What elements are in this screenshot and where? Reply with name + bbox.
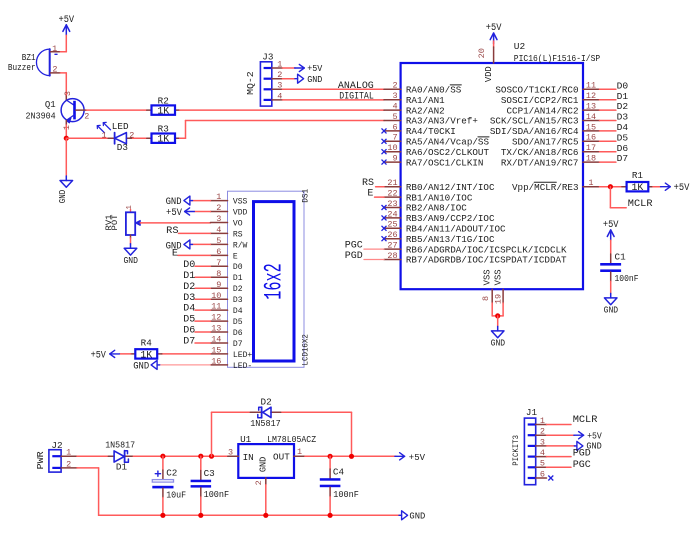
node D3 label (LCD) bbox=[183, 293, 195, 304]
node junction C4/rail bbox=[328, 513, 333, 518]
wire RV1 to GND bbox=[130, 238, 132, 244]
svg-text:D1: D1 bbox=[183, 271, 195, 282]
pin 2 (buzzer) bbox=[52, 65, 57, 75]
wire net ANALOG J3 pin3 to MCU RA0 bbox=[283, 88, 385, 90]
svg-text:D1: D1 bbox=[617, 91, 629, 102]
svg-text:8: 8 bbox=[216, 269, 221, 279]
node D2 label (MCU) bbox=[617, 101, 629, 112]
svg-text:4: 4 bbox=[216, 225, 221, 235]
svg-text:D4: D4 bbox=[233, 306, 243, 316]
wire net D0 to DS1 bbox=[195, 265, 210, 267]
wire J3 pin2 to GND bbox=[283, 78, 295, 80]
pin 4 (DS1 RS) bbox=[210, 225, 242, 239]
svg-text:2: 2 bbox=[216, 203, 221, 213]
pin 11 (DS1 D4) bbox=[210, 302, 242, 316]
svg-text:100nF: 100nF bbox=[204, 489, 230, 500]
pin 17 (U2 TX/CK/AN18/RC6) bbox=[501, 143, 600, 158]
pin 3 (J1) bbox=[540, 437, 545, 447]
svg-text:J3: J3 bbox=[262, 52, 273, 63]
svg-text:+5V: +5V bbox=[603, 219, 619, 230]
diode D1 1N5817 (schottky) bbox=[105, 439, 135, 472]
pin 28 (U2 RB7/ADGRDB/IOC/ICSPDAT/ICDDAT) bbox=[384, 251, 567, 266]
pin 16 (DS1 LED-) bbox=[210, 357, 252, 371]
pin 4 (J1) bbox=[540, 448, 545, 458]
svg-text:D4: D4 bbox=[617, 122, 629, 133]
svg-text:VSS: VSS bbox=[233, 197, 248, 207]
node D0 label (LCD) bbox=[183, 260, 195, 271]
svg-text:RB3/AN9/CCP2/IOC: RB3/AN9/CCP2/IOC bbox=[406, 213, 495, 224]
svg-text:D3: D3 bbox=[617, 112, 629, 123]
node D5 label (LCD) bbox=[183, 315, 195, 326]
wire Q1 emitter down bbox=[65, 125, 67, 138]
pin 6 (DS1 E) bbox=[210, 247, 237, 261]
svg-text:D6: D6 bbox=[233, 328, 243, 338]
svg-text:1K: 1K bbox=[157, 134, 169, 145]
pin 3 (U1 IN) bbox=[228, 447, 233, 457]
svg-text:RB6/ADGRDA/IOC/ICSPCLK/ICDCLK: RB6/ADGRDA/IOC/ICSPCLK/ICDCLK bbox=[406, 244, 567, 255]
svg-text:5: 5 bbox=[216, 236, 221, 246]
svg-text:GND: GND bbox=[491, 338, 506, 349]
svg-text:VSS: VSS bbox=[493, 269, 503, 285]
node junction C3/rail bbox=[198, 513, 203, 518]
svg-text:R/W: R/W bbox=[233, 240, 248, 250]
wire net PGD from J1 pin4 bbox=[547, 456, 572, 458]
svg-text:5: 5 bbox=[392, 112, 397, 122]
svg-text:RB7/ADGRDB/IOC/ICSPDAT/ICDDAT: RB7/ADGRDB/IOC/ICSPDAT/ICDDAT bbox=[406, 255, 567, 266]
svg-text:SDO/AN17/RC5: SDO/AN17/RC5 bbox=[512, 137, 579, 148]
wire J1 pin3 to GND bbox=[547, 445, 576, 447]
node junction D2 right bbox=[349, 454, 354, 459]
node RS label (LCD) bbox=[166, 225, 178, 237]
svg-text:LED: LED bbox=[112, 121, 129, 132]
svg-text:VDD: VDD bbox=[233, 207, 248, 217]
svg-text:+5V: +5V bbox=[307, 63, 322, 74]
power +5V (C1) bbox=[603, 219, 619, 241]
wire U1 GND to rail bbox=[265, 485, 267, 516]
pin 14 (U2 SCK/SCL/AN15/RC3) bbox=[490, 112, 600, 127]
svg-text:D0: D0 bbox=[183, 260, 195, 271]
svg-text:15: 15 bbox=[211, 346, 221, 356]
svg-text:D0: D0 bbox=[233, 262, 243, 272]
svg-text:OUT: OUT bbox=[273, 452, 290, 463]
svg-text:VDD: VDD bbox=[484, 66, 494, 82]
pin 1 (Q1 emitter) bbox=[62, 125, 72, 130]
pin 18 (U2 RX/DT/AN19/RC7) bbox=[501, 154, 600, 169]
node E label (LCD) bbox=[172, 248, 178, 260]
node junction MCLR/R1 bbox=[608, 184, 613, 189]
node junction C3 bbox=[198, 454, 203, 459]
node DIGITAL label bbox=[339, 91, 374, 102]
svg-text:2: 2 bbox=[392, 81, 397, 91]
node D0 label (MCU) bbox=[617, 80, 629, 91]
svg-text:15: 15 bbox=[586, 122, 596, 132]
wire junction to LED anode bbox=[66, 137, 108, 139]
node junction C4 bbox=[328, 454, 333, 459]
wire net D4 from U2 pin 15 bbox=[600, 130, 616, 132]
svg-text:D3: D3 bbox=[183, 293, 195, 304]
svg-text:CCP1/AN14/RC2: CCP1/AN14/RC2 bbox=[507, 105, 579, 116]
pin 1 (U2 Vpp/MCLR/RE3) bbox=[512, 178, 600, 193]
svg-text:3: 3 bbox=[392, 91, 397, 101]
wire net D1 from U2 pin 12 bbox=[600, 99, 616, 101]
svg-text:+5V: +5V bbox=[587, 431, 602, 442]
node E label (MCU) bbox=[367, 189, 373, 200]
node junction VSS bbox=[495, 313, 500, 318]
svg-text:LM78L05ACZ: LM78L05ACZ bbox=[267, 434, 316, 445]
pin 1 (U1 OUT) bbox=[297, 447, 302, 457]
svg-text:8: 8 bbox=[481, 296, 491, 301]
wire net MCLR from J1 pin1 bbox=[547, 424, 572, 426]
node junction D2 left bbox=[209, 454, 214, 459]
no-connect (J1 pin6) bbox=[548, 476, 553, 481]
svg-text:D2: D2 bbox=[617, 101, 629, 112]
svg-text:2: 2 bbox=[254, 480, 264, 485]
svg-text:10: 10 bbox=[211, 291, 221, 301]
svg-text:LCD16X2: LCD16X2 bbox=[301, 334, 311, 365]
pin 12 (U2 SOSCI/CCP2/RC1) bbox=[501, 91, 600, 106]
svg-text:RA2/AN2: RA2/AN2 bbox=[406, 105, 445, 116]
svg-text:13: 13 bbox=[586, 102, 596, 112]
svg-text:1: 1 bbox=[126, 205, 134, 209]
pin 10 (DS1 D3) bbox=[210, 291, 242, 305]
svg-text:D7: D7 bbox=[617, 153, 629, 164]
node D1 label (MCU) bbox=[617, 91, 629, 102]
svg-text:3: 3 bbox=[277, 81, 282, 91]
svg-text:12: 12 bbox=[211, 313, 221, 323]
node MCLR label bbox=[628, 198, 653, 210]
svg-text:E: E bbox=[367, 189, 373, 200]
wire net PGD to U2 RB7 bbox=[364, 259, 384, 261]
svg-text:2: 2 bbox=[277, 70, 282, 80]
ground (rail label) bbox=[399, 511, 426, 522]
pin 24 (U2 RB3/AN9/CCP2/IOC) bbox=[382, 209, 495, 224]
svg-text:U2: U2 bbox=[514, 41, 526, 52]
svg-text:RA1/AN1: RA1/AN1 bbox=[406, 95, 445, 106]
svg-text:PIC16(L)F1516-I/SP: PIC16(L)F1516-I/SP bbox=[514, 53, 601, 64]
svg-text:16: 16 bbox=[211, 357, 221, 367]
svg-text:DIGITAL: DIGITAL bbox=[339, 91, 374, 102]
pin 2 (Q1 base) bbox=[84, 111, 89, 121]
power +5V (regulator output) bbox=[395, 452, 425, 463]
svg-text:C2: C2 bbox=[166, 467, 177, 478]
wire net RS to DS1 pin4 bbox=[179, 232, 211, 234]
svg-text:22: 22 bbox=[387, 189, 397, 199]
svg-text:C3: C3 bbox=[204, 468, 215, 479]
transistor Q1 2N3904 bbox=[26, 96, 87, 125]
connector J2 PWR bbox=[36, 440, 77, 472]
svg-text:7: 7 bbox=[392, 133, 397, 143]
capacitor C3 100nF bbox=[191, 456, 230, 515]
svg-text:1: 1 bbox=[101, 130, 106, 140]
svg-text:TX/CK/AN18/RC6: TX/CK/AN18/RC6 bbox=[501, 147, 579, 158]
node PGD label (MCU) bbox=[345, 251, 363, 262]
svg-text:D5: D5 bbox=[617, 132, 629, 143]
node ANALOG label bbox=[338, 81, 374, 92]
svg-text:28: 28 bbox=[387, 251, 397, 261]
node D4 label (MCU) bbox=[617, 122, 629, 133]
wire +5V to VDD bbox=[493, 41, 495, 47]
regulator U1 LM78L05ACZ bbox=[228, 434, 317, 485]
svg-text:GND: GND bbox=[57, 189, 68, 203]
ground (DS1 pin1) bbox=[166, 196, 193, 208]
svg-text:RA7/OSC1/CLKIN: RA7/OSC1/CLKIN bbox=[406, 157, 484, 168]
svg-text:RA4/T0CKI: RA4/T0CKI bbox=[406, 126, 456, 137]
svg-text:1: 1 bbox=[540, 416, 545, 426]
svg-text:GND: GND bbox=[133, 361, 149, 372]
node D2 label (LCD) bbox=[183, 282, 195, 293]
capacitor C2 10uF (polarized) bbox=[152, 456, 186, 515]
svg-text:D6: D6 bbox=[617, 143, 629, 154]
svg-text:7: 7 bbox=[216, 258, 221, 268]
wire DS1 VDD to +5V bbox=[195, 211, 211, 213]
svg-text:14: 14 bbox=[586, 112, 596, 122]
wire junction to GND bbox=[65, 138, 67, 176]
pin 2 (U1 GND) bbox=[254, 480, 264, 485]
wire net DIGITAL J3 pin4 to MCU RA1 bbox=[283, 99, 385, 101]
wire J3 pin1 to +5V bbox=[283, 67, 296, 69]
wire net RS to U2 RB0 bbox=[376, 186, 384, 188]
wire net E to DS1 pin6 bbox=[178, 254, 210, 256]
svg-text:C4: C4 bbox=[333, 467, 345, 478]
svg-text:LED+: LED+ bbox=[233, 350, 252, 360]
wire C1 to GND bbox=[610, 272, 612, 293]
node D3 label (MCU) bbox=[617, 112, 629, 123]
pin 21 (U2 RB0/AN12/INT/IOC) bbox=[384, 178, 495, 193]
power +5V (R1 pullup) bbox=[661, 183, 690, 194]
pin 16 (U2 SDO/AN17/RC5) bbox=[512, 133, 600, 148]
node D1 label (LCD) bbox=[183, 271, 195, 282]
ground (RV1) bbox=[123, 244, 138, 266]
svg-text:6: 6 bbox=[540, 469, 545, 479]
svg-text:GND: GND bbox=[604, 305, 619, 316]
pin 1 (J2) bbox=[66, 448, 71, 458]
svg-text:RB1/AN10/IOC: RB1/AN10/IOC bbox=[406, 192, 473, 203]
pin 9 (DS1 D2) bbox=[210, 280, 242, 294]
node junction C2/rail bbox=[160, 513, 165, 518]
wire net PGC from J1 pin5 bbox=[547, 466, 572, 468]
svg-text:PGD: PGD bbox=[345, 251, 363, 262]
node junction U1 GND/rail bbox=[263, 513, 268, 518]
svg-text:RS: RS bbox=[362, 178, 374, 189]
svg-text:MCLR: MCLR bbox=[573, 414, 598, 426]
wire net D2 to DS1 bbox=[195, 287, 210, 289]
capacitor C1 100nF bbox=[600, 251, 638, 284]
pin 11 (U2 SOSCO/T1CKI/RC0) bbox=[495, 81, 599, 96]
wire net D2 from U2 pin 13 bbox=[600, 109, 616, 111]
svg-text:SOSCO/T1CKI/RC0: SOSCO/T1CKI/RC0 bbox=[495, 85, 578, 96]
svg-text:Buzzer: Buzzer bbox=[8, 63, 36, 73]
svg-text:POT: POT bbox=[112, 214, 120, 230]
svg-text:1: 1 bbox=[297, 447, 302, 457]
node PGC label (J1) bbox=[573, 460, 591, 471]
svg-text:2N3904: 2N3904 bbox=[26, 111, 56, 121]
svg-text:IN: IN bbox=[243, 452, 254, 463]
wire DS1 R/W to GND bbox=[192, 243, 211, 245]
pin 8 (DS1 D1) bbox=[210, 269, 242, 283]
svg-text:1N5817: 1N5817 bbox=[105, 439, 135, 450]
pin 12 (DS1 D5) bbox=[210, 313, 242, 327]
svg-text:1: 1 bbox=[66, 448, 71, 458]
pin 1 (J1) bbox=[540, 416, 545, 426]
connector J1 PICKIT3 bbox=[512, 407, 547, 485]
wire D1 to U1 IN bbox=[133, 455, 228, 457]
svg-text:10: 10 bbox=[387, 143, 397, 153]
pin 7 (DS1 D0) bbox=[210, 258, 242, 272]
svg-text:E: E bbox=[233, 251, 238, 261]
connector J3 MQ-2 bbox=[246, 52, 283, 107]
svg-text:100nF: 100nF bbox=[333, 489, 359, 500]
pin 3 (DS1 VO) bbox=[210, 214, 242, 228]
svg-text:PWR: PWR bbox=[36, 451, 46, 470]
potentiometer RV1 POT bbox=[106, 209, 140, 238]
wire R3 to MCU RA3 pin 5 bbox=[180, 121, 384, 139]
wire net PGC to U2 RB6 bbox=[364, 248, 384, 250]
wire net D7 from U2 pin 18 bbox=[600, 161, 616, 163]
svg-text:MCLR: MCLR bbox=[628, 198, 653, 210]
pin 4 (U2 RA2/AN2) bbox=[384, 102, 445, 117]
ground (DS1 pin16) bbox=[133, 360, 160, 372]
svg-text:D5: D5 bbox=[233, 317, 243, 327]
pin 22 (U2 RB1/AN10/IOC) bbox=[384, 189, 473, 204]
svg-text:D6: D6 bbox=[183, 326, 195, 337]
power +5V (J3 pin1) bbox=[295, 63, 323, 74]
pin 5 (J1) bbox=[540, 459, 545, 469]
pin 2 (J1) bbox=[540, 427, 545, 437]
wire net D6 from U2 pin 17 bbox=[600, 151, 616, 153]
pin 19 (U2 VSS) bbox=[493, 269, 503, 304]
svg-text:D5: D5 bbox=[183, 315, 195, 326]
svg-text:1N5817: 1N5817 bbox=[250, 418, 281, 429]
wire net D5 from U2 pin 16 bbox=[600, 140, 616, 142]
svg-text:+5V: +5V bbox=[91, 350, 106, 361]
svg-text:PICKIT3: PICKIT3 bbox=[512, 435, 521, 466]
svg-text:R4: R4 bbox=[141, 337, 153, 348]
pin 23 (U2 RB2/AN8/IOC) bbox=[382, 199, 468, 214]
svg-text:RB4/AN11/ADOUT/IOC: RB4/AN11/ADOUT/IOC bbox=[406, 224, 506, 235]
node D5 label (MCU) bbox=[617, 132, 629, 143]
wire net D4 to DS1 bbox=[195, 309, 210, 311]
svg-text:6: 6 bbox=[216, 247, 221, 257]
node PGC label (MCU) bbox=[345, 241, 363, 252]
pin 1 (buzzer) bbox=[52, 44, 57, 54]
svg-text:PGC: PGC bbox=[573, 460, 591, 471]
wire U2 pin1 to R1 bbox=[600, 186, 627, 188]
svg-text:100nF: 100nF bbox=[615, 273, 639, 284]
svg-text:1: 1 bbox=[52, 44, 57, 54]
LCD module DS1 LCD16X2 bbox=[228, 189, 311, 367]
svg-text:ANALOG: ANALOG bbox=[338, 81, 374, 92]
pin 14 (DS1 D7) bbox=[210, 335, 242, 349]
svg-text:D0: D0 bbox=[617, 80, 629, 91]
wire VSS pins to ground bbox=[492, 303, 503, 316]
svg-text:10uF: 10uF bbox=[166, 489, 186, 500]
node D6 label (MCU) bbox=[617, 143, 629, 154]
svg-text:C1: C1 bbox=[615, 251, 627, 262]
pin 2 (U2 RA0/AN0/SS) bbox=[384, 81, 462, 96]
pin 4 (J3) bbox=[277, 91, 282, 101]
wire +5V to C1 bbox=[610, 240, 612, 263]
node junction C2 bbox=[160, 454, 165, 459]
svg-text:D2: D2 bbox=[233, 284, 243, 294]
node D4 label (LCD) bbox=[183, 304, 195, 315]
wire net D1 to DS1 bbox=[195, 276, 210, 278]
pin 3 (J3) bbox=[277, 81, 282, 91]
svg-text:+5V: +5V bbox=[59, 14, 75, 25]
svg-text:1: 1 bbox=[588, 178, 593, 188]
ground (DS1 pin5) bbox=[166, 240, 193, 252]
svg-text:RS: RS bbox=[166, 225, 178, 237]
svg-text:16x2: 16x2 bbox=[260, 263, 289, 300]
svg-text:SDI/SDA/AN16/RC4: SDI/SDA/AN16/RC4 bbox=[490, 126, 579, 137]
svg-text:1K: 1K bbox=[632, 182, 644, 193]
svg-text:J1: J1 bbox=[526, 407, 538, 418]
svg-text:RA6/OSC2/CLKOUT: RA6/OSC2/CLKOUT bbox=[406, 147, 490, 158]
svg-text:4: 4 bbox=[277, 91, 282, 101]
svg-text:D2: D2 bbox=[261, 396, 272, 407]
wire +5V to buzzer pin 1 bbox=[65, 35, 67, 52]
svg-text:9: 9 bbox=[216, 280, 221, 290]
power +5V (VDD pin 20) bbox=[486, 22, 502, 43]
svg-text:2: 2 bbox=[52, 65, 57, 75]
svg-text:12: 12 bbox=[586, 91, 596, 101]
svg-text:RA5/AN4/Vcap/SS: RA5/AN4/Vcap/SS bbox=[406, 137, 490, 148]
svg-text:2: 2 bbox=[66, 459, 71, 469]
wire RV1 wiper to LCD VO bbox=[140, 222, 210, 224]
svg-text:RS: RS bbox=[233, 229, 243, 239]
svg-text:VO: VO bbox=[233, 218, 243, 228]
wire DS1 VSS to GND bbox=[192, 200, 211, 202]
svg-text:GND: GND bbox=[409, 511, 425, 522]
svg-text:26: 26 bbox=[387, 230, 397, 240]
svg-text:DS1: DS1 bbox=[301, 189, 311, 203]
svg-text:LED-: LED- bbox=[233, 361, 252, 371]
svg-text:D2: D2 bbox=[183, 282, 195, 293]
svg-text:11: 11 bbox=[211, 302, 221, 312]
svg-text:3: 3 bbox=[216, 214, 221, 224]
resistor R1 bbox=[622, 170, 653, 193]
ground (C1) bbox=[604, 293, 619, 315]
pin 9 (U2 RA7/OSC1/CLKIN) bbox=[382, 154, 484, 169]
node D7 label (LCD) bbox=[183, 337, 195, 348]
svg-text:25: 25 bbox=[387, 220, 397, 230]
svg-text:GND: GND bbox=[307, 74, 322, 85]
pin 2 (J2) bbox=[66, 459, 71, 469]
pin 7 (U2 RA5/AN4/Vcap/SS) bbox=[382, 133, 490, 148]
wire net D0 from U2 pin 11 bbox=[600, 88, 616, 90]
svg-text:D7: D7 bbox=[233, 339, 243, 349]
node PGD label (J1) bbox=[573, 449, 591, 460]
pin 10 (U2 RA6/OSC2/CLKOUT) bbox=[382, 143, 490, 158]
svg-text:PGC: PGC bbox=[345, 241, 363, 252]
node D6 label (LCD) bbox=[183, 326, 195, 337]
svg-text:R1: R1 bbox=[632, 170, 644, 181]
svg-text:GND: GND bbox=[257, 456, 268, 472]
wire to ground (VSS) bbox=[497, 316, 499, 327]
pin 1 (D3) bbox=[101, 130, 106, 140]
svg-text:MQ-2: MQ-2 bbox=[246, 71, 256, 95]
power +5V (DS1 pin2) bbox=[166, 207, 194, 219]
node D7 label (MCU) bbox=[617, 153, 629, 164]
LED D3 bbox=[97, 121, 132, 153]
svg-text:1K: 1K bbox=[157, 106, 169, 117]
svg-text:9: 9 bbox=[392, 154, 397, 164]
pin 2 (J3) bbox=[277, 70, 282, 80]
svg-text:23: 23 bbox=[387, 199, 397, 209]
svg-text:+5V: +5V bbox=[486, 22, 502, 33]
svg-text:+5V: +5V bbox=[166, 207, 183, 219]
pin 5 (DS1 R/W) bbox=[210, 236, 248, 250]
pin 2 (DS1 VDD) bbox=[210, 203, 247, 217]
